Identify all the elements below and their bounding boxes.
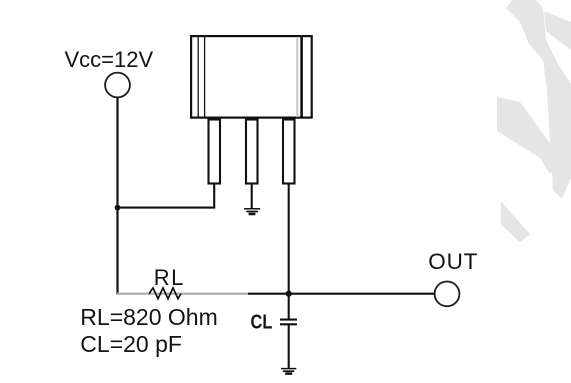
output node junction (286, 291, 292, 297)
wire node A to pin 1 (118, 183, 215, 208)
wire RL gray segment (117, 293, 248, 295)
wire output node to OUT terminal (248, 293, 435, 295)
wire pin 2 to ground (251, 185, 253, 209)
wire Vcc vertical (116, 98, 118, 295)
svg-text:OUT: OUT (428, 249, 478, 274)
terminal OUT (435, 282, 460, 307)
svg-text:RL=820 Ohm: RL=820 Ohm (80, 304, 217, 330)
svg-text:RL: RL (154, 265, 185, 290)
pin 3 (283, 120, 295, 184)
resistor RL (149, 288, 181, 299)
wire capacitor to ground (288, 325, 290, 369)
terminal Vcc (105, 73, 130, 98)
pin 2 (246, 120, 258, 184)
svg-text:Vcc=12V: Vcc=12V (65, 47, 154, 72)
sensor U1 package TO-92 body (191, 36, 312, 118)
node A junction (115, 205, 121, 211)
watermark (497, 0, 571, 243)
ground at CL (281, 369, 296, 374)
svg-text:CL=20 pF: CL=20 pF (80, 331, 182, 357)
wire pin 3 to output node (288, 185, 290, 319)
pin 1 (209, 120, 221, 184)
ground at pin 2 (244, 209, 260, 214)
capacitor CL (280, 320, 297, 325)
svg-text:CL: CL (251, 310, 273, 333)
